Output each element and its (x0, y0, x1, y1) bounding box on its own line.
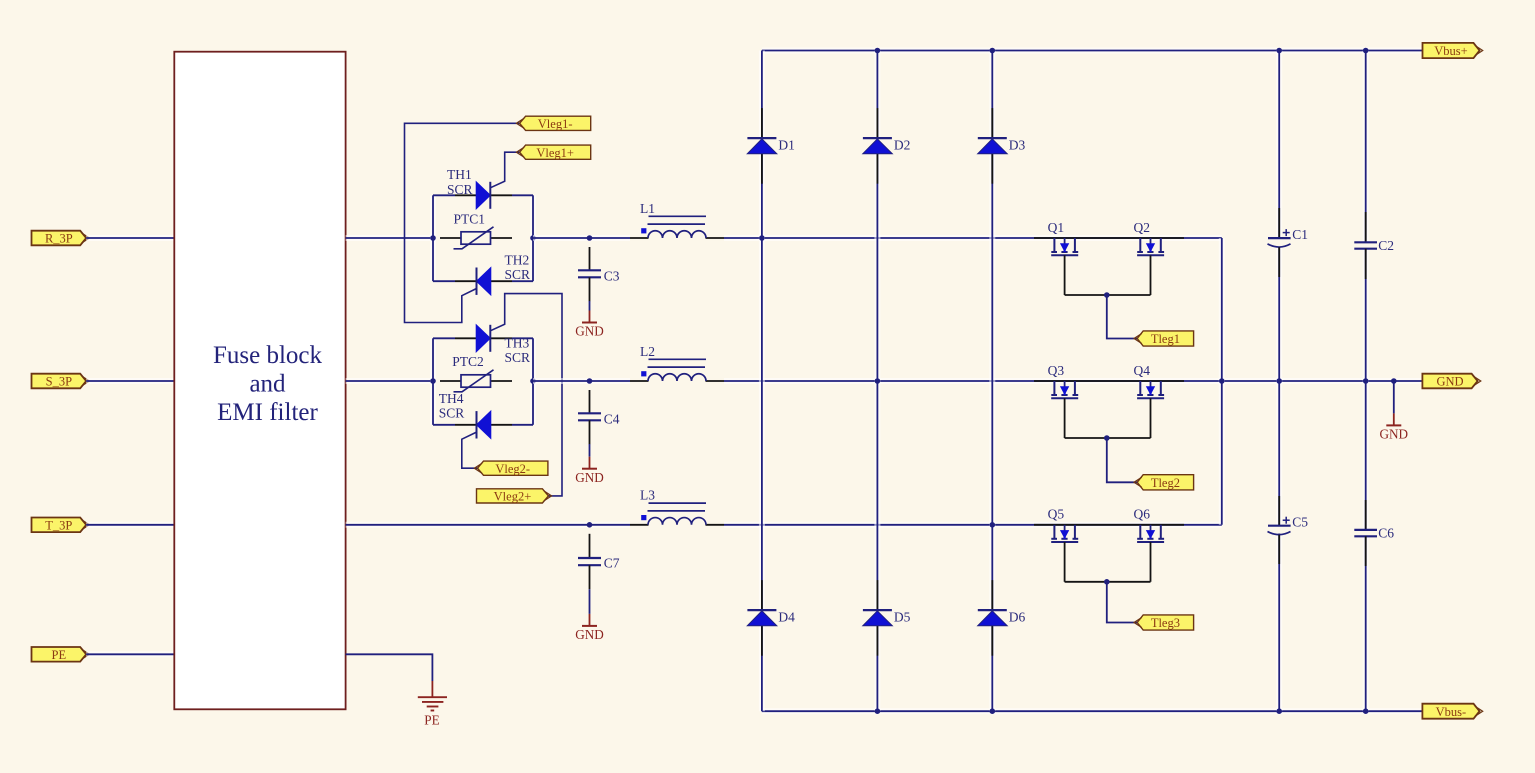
svg-text:C4: C4 (604, 412, 620, 427)
node Tleg1 junction (1104, 292, 1110, 298)
inductor L1 (630, 201, 724, 238)
wire TH4 gate to Vleg2- (462, 432, 478, 468)
node bottom bus D6 (990, 708, 996, 714)
ground GND (C4) (575, 444, 604, 485)
capacitor C3 (578, 247, 620, 301)
wire Vbus- bottom bus (762, 708, 1422, 714)
net label Vleg1- (516, 116, 590, 131)
net label Tleg3 (1134, 615, 1194, 630)
capacitor C4 (578, 390, 620, 444)
node top bus D3 (990, 48, 996, 54)
diode D1 (747, 108, 795, 184)
svg-text:Q2: Q2 (1134, 220, 1151, 235)
node C7 row3 (587, 522, 593, 528)
wire TH1 gate to Vleg1+ (490, 152, 519, 188)
svg-text:EMI filter: EMI filter (217, 399, 318, 426)
wire network1 bottom row (433, 280, 455, 282)
svg-text:PTC2: PTC2 (452, 354, 484, 369)
wire network1 top row (433, 194, 455, 196)
svg-text:TH4: TH4 (439, 391, 464, 406)
node network1 left (430, 235, 436, 241)
node D1 row1 (759, 235, 765, 241)
net label Vleg2+ (477, 489, 552, 504)
port R_3P (32, 231, 90, 246)
wire R_3P to box (86, 235, 174, 241)
node C1/C5 GND bus (1276, 378, 1282, 384)
net label Tleg1 (1134, 331, 1194, 346)
diode D6 (978, 580, 1026, 656)
thermistor PTC2 (440, 354, 512, 392)
capacitor C5 (1268, 496, 1309, 564)
svg-text:Tleg2: Tleg2 (1151, 476, 1180, 490)
wire TH2 gate to Vleg1- (405, 123, 520, 322)
svg-text:SCR: SCR (505, 350, 531, 365)
svg-text:Q3: Q3 (1048, 363, 1065, 378)
svg-text:Fuse block: Fuse block (213, 342, 323, 369)
transistor Q5 (1048, 507, 1079, 582)
svg-text:TH2: TH2 (505, 253, 530, 268)
svg-text:GND: GND (575, 627, 604, 642)
svg-text:L3: L3 (640, 488, 655, 503)
wire box to L3 (T phase) (346, 522, 630, 528)
transistor Q6 (1134, 507, 1165, 582)
node D2 row2 (875, 378, 881, 384)
node C5 bottom bus (1276, 708, 1282, 714)
node network2 right (530, 378, 536, 384)
transistor Q3 (1048, 363, 1079, 438)
svg-text:D1: D1 (778, 138, 795, 153)
node network2 left (430, 378, 436, 384)
capacitor C2 (1354, 212, 1394, 279)
capacitor C1 (1268, 208, 1308, 277)
wire D3 column (989, 51, 995, 712)
port S_3P (32, 374, 90, 389)
node C3 row1 (587, 235, 593, 241)
svg-text:C1: C1 (1292, 227, 1308, 242)
diode D2 (863, 108, 911, 184)
svg-text:TH3: TH3 (505, 336, 530, 351)
wire box to network 2 (S phase) (346, 378, 433, 384)
wire D1 column (759, 51, 765, 712)
svg-text:D4: D4 (778, 610, 795, 625)
diode D5 (863, 580, 911, 656)
wire network2 top row (433, 337, 455, 339)
wire Tleg3 source bracket (1065, 581, 1151, 583)
svg-text:SCR: SCR (447, 182, 473, 197)
thyristor TH1 (447, 167, 512, 209)
transistor Q4 (1134, 363, 1165, 438)
wire box PE to earth (346, 654, 433, 681)
node network1 right (530, 235, 536, 241)
svg-text:Vbus+: Vbus+ (1434, 44, 1467, 58)
svg-text:Vleg2+: Vleg2+ (494, 490, 532, 504)
svg-text:C6: C6 (1378, 525, 1394, 540)
port Vbus- (1422, 704, 1482, 719)
wire D2 column (874, 51, 880, 712)
wire L2 to GND bus row (724, 378, 1423, 384)
svg-text:and: and (249, 371, 286, 398)
thyristor TH3 (455, 325, 530, 365)
svg-text:Tleg3: Tleg3 (1151, 616, 1180, 630)
svg-text:SCR: SCR (439, 406, 465, 421)
diode D4 (747, 580, 795, 656)
svg-text:L1: L1 (640, 201, 655, 216)
svg-text:Vbus-: Vbus- (1436, 705, 1467, 719)
inductor L3 (630, 488, 724, 525)
thyristor TH4 (439, 391, 512, 439)
wire C1/C5 column (1276, 51, 1282, 239)
svg-text:PE: PE (424, 713, 439, 728)
port T_3P (32, 518, 90, 533)
port GND (1422, 374, 1480, 389)
svg-text:Vleg2-: Vleg2- (495, 462, 530, 476)
svg-text:Q5: Q5 (1048, 507, 1065, 522)
node top bus D2 (875, 48, 881, 54)
wire PE to box (86, 651, 174, 657)
wire S_3P to box (86, 378, 174, 384)
inductor L2 (630, 344, 724, 381)
wire through Q3 Q4 (pins) (1034, 380, 1184, 382)
node C1 top bus (1276, 48, 1282, 54)
transistor Q2 (1134, 220, 1165, 295)
net label Tleg2 (1134, 475, 1194, 490)
node Tleg2 junction (1104, 435, 1110, 441)
svg-text:TH1: TH1 (447, 167, 472, 182)
svg-text:C3: C3 (604, 269, 620, 284)
capacitor C7 (578, 534, 620, 589)
wire network2 left rail (430, 338, 436, 425)
node D3 row3 (990, 522, 996, 528)
svg-text:Q4: Q4 (1134, 363, 1151, 378)
wire TH3 gate to Vleg2+ (490, 294, 562, 496)
thermistor PTC1 (440, 212, 512, 249)
net label Vleg2- (474, 461, 548, 476)
svg-text:C2: C2 (1378, 238, 1394, 253)
svg-text:GND: GND (575, 324, 604, 339)
wire Vbus+ top bus (762, 48, 1423, 54)
node C2/C6 GND bus (1363, 378, 1369, 384)
wire junction to Tleg1 (1107, 295, 1137, 339)
ground GND (bus) (1380, 381, 1409, 442)
node C2 top bus (1363, 48, 1369, 54)
svg-text:C5: C5 (1292, 514, 1308, 529)
wire network2 bottom row (433, 424, 455, 426)
wire network1 right rail (530, 195, 536, 281)
svg-text:R_3P: R_3P (45, 232, 73, 246)
svg-text:SCR: SCR (505, 267, 531, 282)
wire T_3P to box (86, 522, 174, 528)
svg-text:Q1: Q1 (1048, 220, 1065, 235)
node C4 row2 (587, 378, 593, 384)
port PE (32, 647, 90, 662)
svg-text:PTC1: PTC1 (454, 212, 486, 227)
capacitor C6 (1354, 500, 1394, 566)
wire network2 to L2 (533, 378, 630, 384)
wire through Q1 Q2 (pins) (1034, 237, 1184, 239)
svg-text:D5: D5 (894, 610, 911, 625)
wire L1 to Q1/Q2 row (724, 235, 1222, 241)
wire L3 to Q5/Q6 row (724, 522, 1222, 528)
node midpoint bus GND (1219, 378, 1225, 384)
port Vbus+ (1423, 43, 1483, 58)
wire Tleg1 source bracket (1065, 294, 1151, 296)
wire through Q5 Q6 (pins) (1034, 524, 1184, 526)
transistor Q1 (1048, 220, 1079, 295)
node GND symbol on bus (1391, 378, 1397, 384)
svg-text:L2: L2 (640, 344, 655, 359)
wire junction to Tleg3 (1107, 582, 1137, 623)
wire network1 to L1 (533, 235, 630, 241)
svg-text:D2: D2 (894, 138, 911, 153)
fuse block and EMI filter box U1 (174, 52, 345, 710)
wire Tleg2 source bracket (1065, 437, 1151, 439)
svg-text:Q6: Q6 (1134, 507, 1151, 522)
diode D3 (978, 108, 1026, 184)
svg-text:D6: D6 (1009, 610, 1026, 625)
wire Q pairs to midpoint bus (1219, 238, 1225, 525)
wire box to network 1 (R phase) (346, 235, 433, 241)
wire C2/C6 column (1363, 51, 1369, 243)
svg-text:PE: PE (52, 648, 67, 662)
node Tleg3 junction (1104, 579, 1110, 585)
wire network1 left rail (430, 195, 436, 281)
svg-text:T_3P: T_3P (45, 518, 72, 532)
node bottom bus D5 (875, 708, 881, 714)
svg-text:GND: GND (1380, 427, 1409, 442)
svg-text:S_3P: S_3P (46, 375, 72, 389)
earth ground PE (418, 681, 447, 728)
svg-text:C7: C7 (604, 556, 620, 571)
svg-text:Tleg1: Tleg1 (1151, 332, 1180, 346)
svg-text:GND: GND (575, 470, 604, 485)
wire network2 right rail (530, 338, 536, 425)
svg-text:GND: GND (1436, 375, 1463, 389)
net label Vleg1+ (516, 145, 590, 160)
svg-text:Vleg1+: Vleg1+ (536, 146, 574, 160)
node C6 bottom bus (1363, 708, 1369, 714)
ground GND (C7) (575, 589, 604, 642)
wire junction to Tleg2 (1107, 438, 1137, 482)
svg-text:D3: D3 (1009, 138, 1026, 153)
svg-text:Vleg1-: Vleg1- (538, 117, 573, 131)
ground GND (C3) (575, 301, 604, 339)
thyristor TH2 (455, 253, 530, 295)
